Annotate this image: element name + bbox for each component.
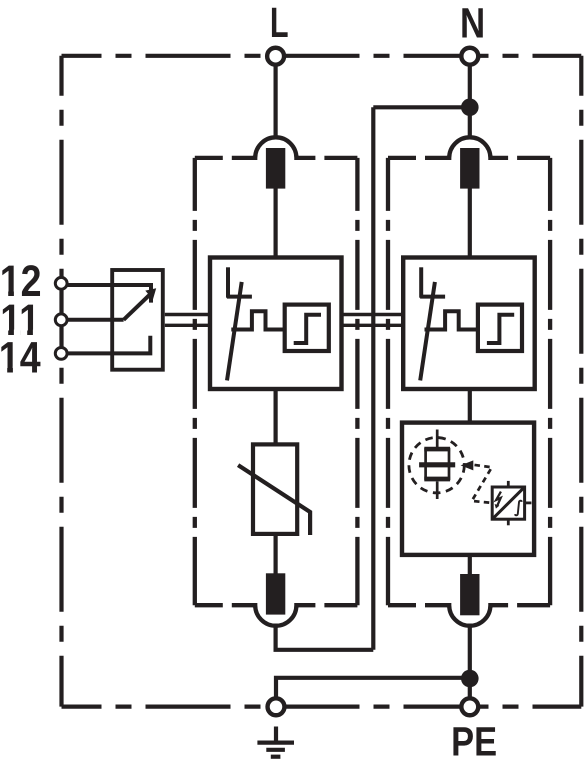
svg-text:N: N [460,1,485,48]
svg-text:L: L [270,0,289,47]
svg-text:PE: PE [451,719,497,765]
svg-text:14: 14 [0,333,41,382]
